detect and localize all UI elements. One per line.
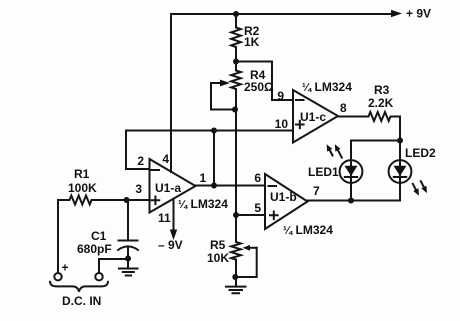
wire +9V top rail bbox=[171, 13, 395, 15]
wire pin 9 of U1-c bbox=[236, 62, 293, 101]
R5 wiper arrow bbox=[250, 247, 257, 249]
svg-text:8: 8 bbox=[340, 101, 347, 115]
+9V arrowhead bbox=[391, 10, 402, 17]
node R5 bottom junction bbox=[232, 274, 238, 280]
wire feedback line / pin 10 of U1-c bbox=[126, 130, 293, 132]
svg-text:U1-c: U1-c bbox=[300, 110, 326, 124]
svg-text:9: 9 bbox=[277, 89, 284, 103]
R4 wiper arrow bbox=[211, 82, 222, 84]
wire pin 5 of U1-b bbox=[236, 214, 265, 216]
node C1 ground junction bbox=[125, 256, 131, 262]
op-amp U1-b bbox=[265, 174, 308, 229]
svg-text:3: 3 bbox=[135, 182, 142, 196]
wire DC+ riser bbox=[57, 200, 59, 273]
svg-text:10K: 10K bbox=[207, 251, 229, 265]
node LED1 bottom bbox=[348, 198, 354, 204]
svg-text:– 9V: – 9V bbox=[158, 238, 183, 252]
svg-text:11: 11 bbox=[158, 211, 171, 225]
svg-text:R1: R1 bbox=[74, 167, 90, 181]
pin 11 wire to -9V bbox=[173, 199, 175, 230]
svg-text:U1-b: U1-b bbox=[270, 190, 297, 204]
brace D.C. IN bbox=[50, 282, 108, 292]
LED2 bbox=[389, 160, 412, 183]
svg-text:C1: C1 bbox=[91, 229, 107, 243]
svg-text:680pF: 680pF bbox=[77, 242, 112, 256]
wire LED1 bottom bbox=[350, 183, 352, 201]
svg-text:LED1: LED1 bbox=[308, 165, 339, 179]
svg-text:100K: 100K bbox=[68, 181, 97, 195]
resistor R4 (trimmer) bbox=[231, 62, 241, 110]
svg-text:6: 6 bbox=[254, 171, 261, 185]
terminal DC- bbox=[95, 273, 102, 280]
resistor R3 bbox=[338, 112, 400, 121]
wire riser output to feedback bbox=[213, 131, 215, 186]
wire R3 down to LED node bbox=[399, 117, 401, 161]
R5 wiper loop wire bbox=[236, 248, 257, 277]
node R4 wiper junction bbox=[232, 107, 238, 113]
op-amp U1-c bbox=[293, 90, 338, 143]
ground below C1 bbox=[127, 259, 129, 269]
resistor R2 bbox=[231, 14, 241, 62]
wire U1-a output to U1-b pin 6 bbox=[196, 185, 266, 187]
resistor R5 (trimmer) bbox=[231, 215, 241, 277]
svg-text:2: 2 bbox=[137, 154, 144, 168]
svg-text:+: + bbox=[62, 261, 69, 275]
terminal DC+ bbox=[54, 273, 61, 280]
pin 3 wire bbox=[127, 199, 150, 201]
node feedback riser bbox=[211, 128, 217, 134]
op-amp U1-a bbox=[150, 159, 196, 213]
svg-text:¼ LM324: ¼ LM324 bbox=[178, 197, 228, 211]
svg-text:U1-a: U1-a bbox=[155, 181, 181, 195]
svg-text:4: 4 bbox=[162, 152, 169, 166]
node pin 5 junction bbox=[233, 212, 239, 218]
wire LED1 top branch bbox=[351, 141, 400, 161]
svg-text:1K: 1K bbox=[244, 35, 260, 49]
svg-text:10: 10 bbox=[275, 117, 289, 131]
node LED top junction bbox=[397, 138, 403, 144]
svg-text:+ 9V: + 9V bbox=[406, 7, 431, 21]
wire U1-b output rail to LEDs bbox=[308, 183, 401, 201]
LED2 emission arrows bbox=[413, 184, 417, 191]
node R1/C1/pin3 bbox=[124, 197, 130, 203]
resistor R1 bbox=[58, 196, 127, 205]
node R2/R4/pin9 bbox=[233, 59, 239, 65]
ground below R5 bbox=[235, 277, 237, 286]
svg-text:¼ LM324: ¼ LM324 bbox=[302, 80, 352, 94]
svg-text:D.C. IN: D.C. IN bbox=[62, 294, 101, 308]
svg-text:1: 1 bbox=[200, 171, 207, 185]
svg-text:LED2: LED2 bbox=[405, 146, 436, 160]
svg-text:7: 7 bbox=[313, 184, 320, 198]
svg-text:R3: R3 bbox=[374, 83, 390, 97]
svg-text:250Ω: 250Ω bbox=[244, 80, 274, 94]
wire pin 2 of U1-a bbox=[126, 131, 150, 170]
wire column R4 to R5/pin5 bbox=[235, 110, 237, 216]
svg-text:5: 5 bbox=[254, 201, 261, 215]
node top rail / R2 bbox=[233, 11, 239, 17]
LED1 emission arrows bbox=[329, 149, 332, 155]
svg-text:2.2K: 2.2K bbox=[368, 96, 394, 110]
svg-text:R5: R5 bbox=[210, 238, 226, 252]
LED1 bbox=[340, 160, 363, 183]
wire DC- to C1 ground bbox=[99, 259, 128, 273]
svg-text:¼ LM324: ¼ LM324 bbox=[283, 223, 333, 237]
node U1-a output bbox=[211, 183, 217, 189]
wire V+ down to U1-a pin 4 bbox=[170, 14, 172, 172]
capacitor C1 bbox=[127, 200, 129, 241]
R4 wiper loop wire bbox=[211, 83, 236, 110]
